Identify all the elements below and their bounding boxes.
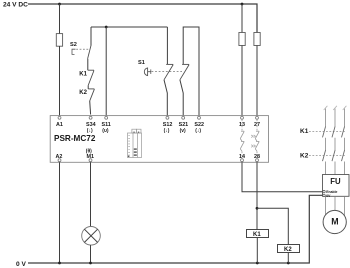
relay contact 13-14 <box>240 120 244 159</box>
fuse F1 <box>239 33 245 46</box>
svg-text:PSR-MC72: PSR-MC72 <box>54 134 96 143</box>
junction dot fuse F1 tap <box>241 3 244 6</box>
terminal 13 <box>241 116 244 119</box>
wire S2 top lead <box>90 27 92 46</box>
svg-text:(υ): (υ) <box>102 128 109 134</box>
drive FU box <box>323 175 350 197</box>
wire S11 feed rail <box>91 26 167 28</box>
terminal 27 <box>256 116 259 119</box>
wire K1 to 0V <box>256 238 258 264</box>
svg-text:S1: S1 <box>138 60 145 66</box>
terminal S12 <box>166 116 169 119</box>
fuse F2 <box>254 33 260 46</box>
svg-text:(↓): (↓) <box>164 128 170 134</box>
svg-text:0V: 0V <box>326 194 331 198</box>
svg-text:A2: A2 <box>56 154 63 160</box>
fuse F0 (A1 branch) <box>56 34 62 47</box>
e-stop S1 contact1 blade <box>164 65 173 80</box>
svg-text:K2: K2 <box>79 90 87 96</box>
e-stop S1 contact2 blade <box>180 65 189 80</box>
svg-text:K1: K1 <box>300 128 309 135</box>
svg-text:S2: S2 <box>70 42 77 48</box>
svg-text:A1: A1 <box>56 122 63 128</box>
svg-text:K1: K1 <box>253 232 261 238</box>
motor M <box>323 210 346 233</box>
pushbutton S2 actuator link <box>76 48 88 50</box>
junction dot K1-0V <box>256 262 259 265</box>
FU 0V input <box>323 194 325 196</box>
wire K1 to K2 <box>87 85 89 89</box>
e-stop S1 link <box>152 71 183 73</box>
wire F1 to 13 <box>241 46 243 117</box>
svg-text:(↓): (↓) <box>87 128 93 134</box>
svg-text:K2: K2 <box>300 153 309 160</box>
wire 28 drop <box>256 162 258 229</box>
wire S12 bottom lead <box>164 80 167 116</box>
wire S11 drop <box>105 27 107 116</box>
junction dot 28 branch <box>256 207 259 210</box>
contactor K2 link <box>309 154 346 156</box>
svg-text:(θ): (θ) <box>86 148 92 154</box>
wire A1 drop lower <box>59 46 61 116</box>
terminal 14 <box>241 159 244 162</box>
svg-text:FU: FU <box>330 177 341 186</box>
e-stop S1 contact2 bar <box>182 63 189 65</box>
terminal S11 <box>105 116 108 119</box>
e-stop S1 mushroom head <box>144 68 147 76</box>
wire FU to motor <box>326 196 345 216</box>
svg-text:K1: K1 <box>79 72 87 78</box>
wire M1 drop <box>90 162 92 226</box>
terminal S21 <box>182 116 185 119</box>
terminal A2 <box>58 159 61 162</box>
wire K2 to S34 <box>89 101 92 115</box>
terminal S34 <box>89 116 92 119</box>
wire phase mid segments <box>326 138 345 150</box>
junction dot S11 <box>105 26 108 29</box>
contactor K1 blades <box>323 126 345 137</box>
wire 24V rail <box>28 4 257 33</box>
contactor K2 blades <box>323 150 345 161</box>
junction dot A2-0V <box>58 262 61 265</box>
wire fuse F1 drop <box>241 4 243 33</box>
wire phase L3 <box>344 109 346 127</box>
contact K1 blade <box>88 70 94 85</box>
wire S21 bottom lead <box>180 80 183 116</box>
wire phase L1 <box>325 109 327 127</box>
svg-text:M1: M1 <box>87 154 95 160</box>
wire phase L2 <box>334 109 336 127</box>
pushbutton S2 NC blade <box>88 45 91 58</box>
wire F2 to 27 <box>256 46 258 117</box>
contact K1 bar <box>88 69 94 71</box>
terminal A1 <box>58 116 61 119</box>
terminal M1 <box>89 159 92 162</box>
wire 0V rail <box>28 195 323 263</box>
wire S2 to K1 <box>87 59 89 70</box>
wire K2 branch <box>257 208 288 244</box>
wire 14 to FU enable <box>242 162 323 192</box>
svg-text:(v): (v) <box>180 128 186 134</box>
terminal S22 <box>198 116 201 119</box>
coil K2 <box>278 245 300 253</box>
wire S12 top lead <box>166 27 168 64</box>
e-stop S1 stem <box>148 69 151 74</box>
svg-text:24 V DC: 24 V DC <box>3 2 28 9</box>
svg-text:M: M <box>331 217 338 227</box>
wire K2 to 0V <box>287 253 289 264</box>
wire A1 drop upper <box>59 4 61 34</box>
contact K2 bar <box>88 88 94 90</box>
relay contact 27-28 <box>251 120 259 159</box>
pushbutton S2 actuator <box>72 49 76 54</box>
wire S21-S22 bridge <box>183 27 199 116</box>
DIP switch block <box>128 129 142 157</box>
junction dot A1 tap <box>58 3 61 6</box>
contactor K1 link <box>309 130 346 132</box>
wire phases to FU <box>326 162 345 175</box>
wire A2 drop <box>59 162 61 263</box>
svg-text:(↓): (↓) <box>195 128 201 134</box>
svg-text:K2: K2 <box>284 247 292 253</box>
lamp P1 <box>82 227 101 246</box>
svg-text:0 V: 0 V <box>16 261 26 268</box>
contact K2 blade <box>90 89 95 101</box>
terminal 28 <box>256 159 259 162</box>
junction dot K2-0V <box>287 262 290 265</box>
wire lamp to 0V <box>90 245 92 263</box>
e-stop S1 contact1 bar <box>166 63 173 65</box>
junction dot lamp-0V <box>89 262 92 265</box>
relay box PSR-MC72 <box>50 116 268 163</box>
FU enable input <box>323 190 325 192</box>
coil K1 <box>247 230 269 238</box>
